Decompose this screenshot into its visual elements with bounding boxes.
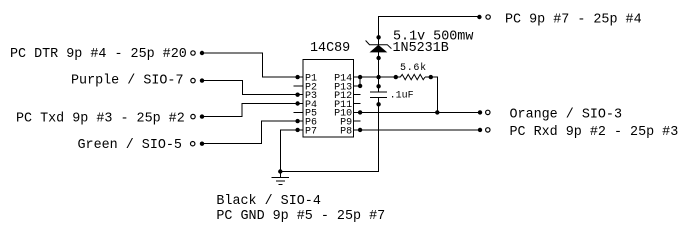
svg-text:PC GND 9p #5 - 25p #7: PC GND 9p #5 - 25p #7 xyxy=(216,209,385,224)
svg-text:PC Rxd 9p #2 - 25p #3: PC Rxd 9p #2 - 25p #3 xyxy=(510,125,679,140)
svg-text:1N5231B: 1N5231B xyxy=(393,41,449,56)
svg-text:14C89: 14C89 xyxy=(310,41,350,56)
svg-text:PC Txd 9p #3 - 25p #2: PC Txd 9p #3 - 25p #2 xyxy=(16,112,185,127)
svg-text:PC DTR 9p #4 - 25p #20: PC DTR 9p #4 - 25p #20 xyxy=(10,47,187,62)
svg-text:5.6k: 5.6k xyxy=(400,62,427,74)
svg-text:Purple / SIO-7: Purple / SIO-7 xyxy=(71,74,184,89)
svg-text:PC 9p #7 - 25p #4: PC 9p #7 - 25p #4 xyxy=(505,12,642,27)
svg-text:.1uF: .1uF xyxy=(390,91,414,102)
svg-text:Black / SIO-4: Black / SIO-4 xyxy=(216,194,320,209)
svg-text:P8: P8 xyxy=(340,126,352,137)
svg-text:P7: P7 xyxy=(305,126,317,137)
svg-text:Orange / SIO-3: Orange / SIO-3 xyxy=(510,107,623,122)
svg-text:Green / SIO-5: Green / SIO-5 xyxy=(78,138,182,153)
